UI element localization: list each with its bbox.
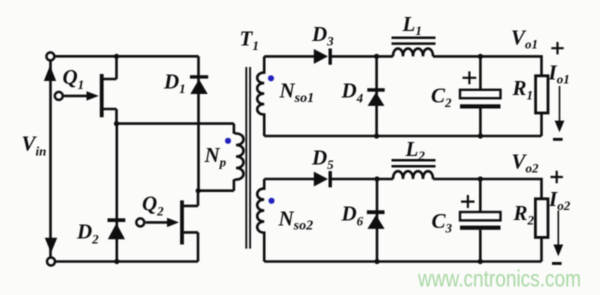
svg-text:www.cntronics.com: www.cntronics.com bbox=[417, 266, 581, 292]
